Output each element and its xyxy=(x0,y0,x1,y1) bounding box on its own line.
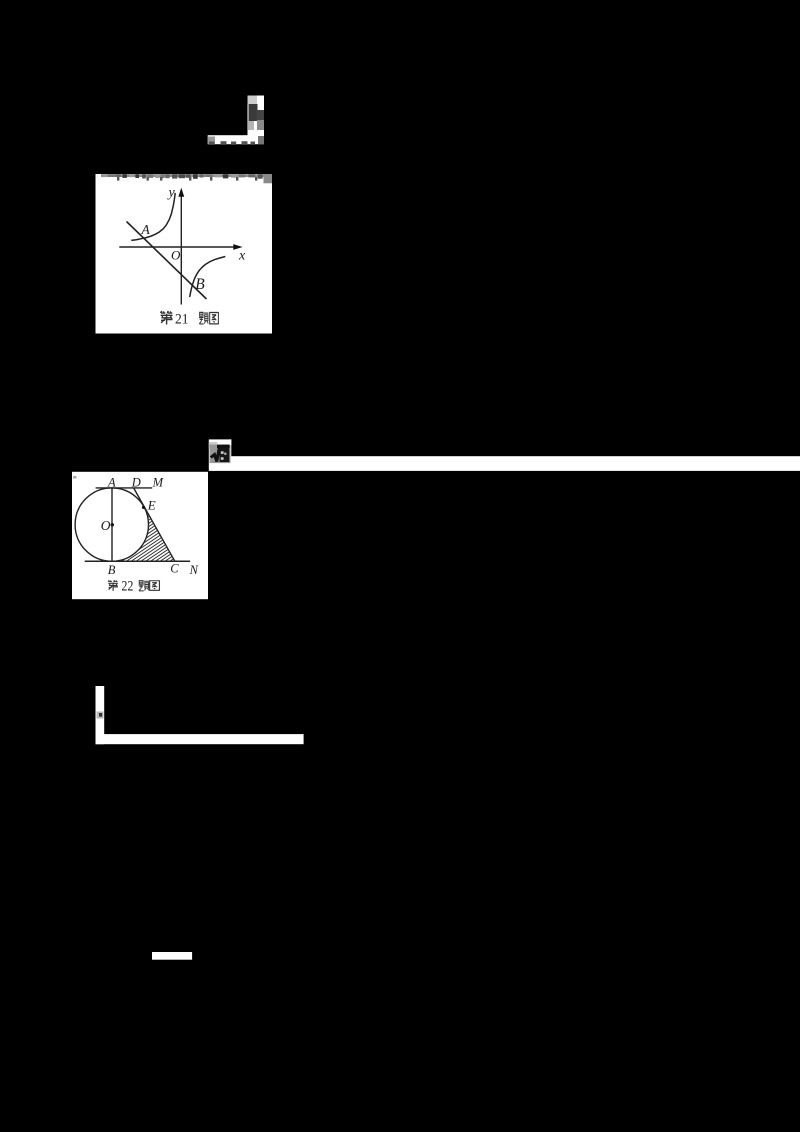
svg-text:E: E xyxy=(147,498,156,513)
svg-text:21: 21 xyxy=(175,312,189,328)
svg-text:M: M xyxy=(152,475,164,489)
svg-text:N: N xyxy=(189,563,199,577)
svg-text:B: B xyxy=(195,276,205,293)
svg-text:C: C xyxy=(170,561,179,575)
svg-text:A: A xyxy=(107,475,116,489)
svg-text:D: D xyxy=(131,475,141,489)
svg-text:B: B xyxy=(108,563,116,577)
svg-text:22: 22 xyxy=(121,579,133,595)
svg-text:O: O xyxy=(171,247,181,262)
svg-text:x: x xyxy=(238,249,246,264)
svg-text:A: A xyxy=(141,222,151,237)
svg-text:O: O xyxy=(101,518,111,533)
